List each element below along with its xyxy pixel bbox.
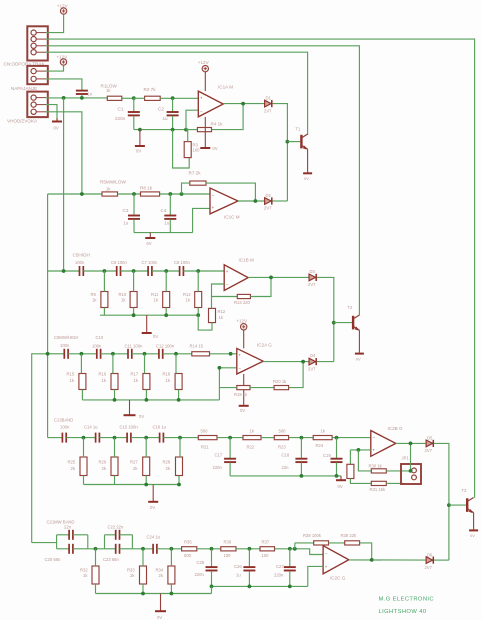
wire R7 right to output xyxy=(206,183,255,201)
wire merge bar 1 xyxy=(87,535,89,549)
svg-text:1u: 1u xyxy=(163,116,169,121)
label R19 1k xyxy=(234,392,248,397)
junction output IC1A xyxy=(241,102,245,106)
wire rail riser to minus node IC2A xyxy=(218,368,220,400)
resistor R19 xyxy=(237,386,250,390)
diode D6 xyxy=(426,557,433,564)
label D2 xyxy=(266,193,272,198)
label R23 xyxy=(278,444,286,449)
svg-text:R27: R27 xyxy=(130,460,138,465)
capacitor C3 xyxy=(128,216,140,219)
label C12 100n xyxy=(156,343,175,348)
label 0V (stage2) xyxy=(147,241,152,246)
label C5HIGH xyxy=(73,253,90,258)
label +12V (P2) xyxy=(57,54,69,59)
wire top branch to C21 xyxy=(57,534,70,536)
wire R37 to IC2C minus jog xyxy=(275,549,324,555)
resistor R1 xyxy=(107,96,122,100)
junction bus A end xyxy=(62,269,66,273)
wire R12 gain bottom to rail xyxy=(198,315,212,330)
wire R13 to output xyxy=(250,277,271,296)
label R5 value 1k xyxy=(106,187,111,192)
resistor R14 xyxy=(192,352,210,356)
resistor R33 xyxy=(140,566,147,584)
svg-text:220n: 220n xyxy=(115,116,126,121)
wire R38 to R39 xyxy=(329,542,345,544)
svg-text:0V: 0V xyxy=(139,414,144,419)
junction minus node stage1 xyxy=(184,128,188,132)
svg-text:−: − xyxy=(372,435,375,440)
capacitor C12 (series) xyxy=(159,349,163,359)
label C6 100n xyxy=(111,260,128,265)
svg-text:D3: D3 xyxy=(310,269,316,274)
junction C17 node xyxy=(228,436,232,440)
capacitor C14 (series) xyxy=(96,433,100,443)
label R37 xyxy=(262,540,270,545)
svg-text:R8 1k: R8 1k xyxy=(140,185,153,190)
label C27 value 220n xyxy=(274,572,284,577)
svg-text:R22: R22 xyxy=(247,444,255,449)
resistor R28 xyxy=(176,457,183,476)
wire stage4 input row xyxy=(48,353,64,355)
resistor R9 xyxy=(101,292,108,308)
label R22 value 1k xyxy=(250,428,255,433)
wire stage5 cap ground rail xyxy=(230,475,341,477)
ground symbol stage6 xyxy=(155,594,166,612)
label C9MW/HIGH xyxy=(54,335,78,340)
wire R26 stems xyxy=(114,438,116,485)
junction R12 ladder node xyxy=(196,269,200,273)
capacitor C6 (series) xyxy=(117,266,121,276)
label R10 xyxy=(119,292,127,297)
ground symbol under CN3 xyxy=(52,118,62,122)
ground symbol IC2A xyxy=(239,405,249,407)
resistor R8 xyxy=(141,192,160,196)
transistor T1 xyxy=(301,134,307,150)
junction T1 base node xyxy=(286,140,290,144)
supply +12V symbol P1 (top) xyxy=(60,8,66,14)
label C10 value 100n xyxy=(92,343,102,348)
wire stage3 input row xyxy=(48,270,80,272)
svg-text:C25: C25 xyxy=(197,560,205,565)
label C21MW BAND xyxy=(47,519,75,524)
capacitor C8 (series) xyxy=(180,266,184,276)
svg-text:C4: C4 xyxy=(161,208,167,213)
junction output IC2C xyxy=(370,558,374,562)
junction stage2 input xyxy=(80,192,84,196)
svg-text:1u: 1u xyxy=(236,572,241,577)
wire op-amp minus to node xyxy=(186,110,198,129)
svg-text:R36: R36 xyxy=(224,540,232,545)
svg-text:1u: 1u xyxy=(124,221,129,226)
junction R15 node xyxy=(80,352,84,356)
svg-text:R18: R18 xyxy=(163,372,171,377)
wire CN3 pin3 input bus to stage2 row xyxy=(46,112,82,194)
label R3 value 100 xyxy=(193,148,201,153)
svg-text:R12: R12 xyxy=(218,309,226,314)
svg-text:T3: T3 xyxy=(462,488,468,493)
wire C18 stem upper xyxy=(300,438,302,459)
ground symbol stage4 xyxy=(124,400,136,415)
wire R7 left to minus node xyxy=(182,183,190,194)
svg-text:220n: 220n xyxy=(274,572,284,577)
svg-text:T2: T2 xyxy=(348,305,354,310)
jumper JP1 xyxy=(401,464,421,484)
label R24 xyxy=(316,443,324,448)
label R27 xyxy=(130,460,138,465)
junction plus node IC2A xyxy=(229,352,233,356)
wire IC1B minus to feedback node xyxy=(212,284,225,297)
wire stage6 cap ground rail xyxy=(212,585,308,587)
wire R21 to C17 node xyxy=(217,437,243,439)
junction R11 node xyxy=(164,269,168,273)
wire C1 node to R2 xyxy=(134,97,145,99)
junction rail R12 xyxy=(196,313,200,317)
label R15 value 1k xyxy=(70,378,75,383)
wire C1 to ground rail xyxy=(133,116,135,130)
svg-text:0V: 0V xyxy=(157,615,162,620)
wire C26 to cap rail 6 xyxy=(248,571,250,587)
label C4 value 1u xyxy=(165,221,170,226)
label R2 7k xyxy=(144,87,157,92)
wire R35 to C25 node xyxy=(197,548,221,550)
svg-text:500: 500 xyxy=(184,553,192,558)
wire C24 to R35 xyxy=(157,548,182,550)
transistor T3 xyxy=(467,498,473,514)
svg-text:0V: 0V xyxy=(153,334,158,339)
svg-text:0V: 0V xyxy=(54,126,59,131)
resistor R7 xyxy=(190,181,206,185)
svg-text:R31 15k: R31 15k xyxy=(370,487,387,492)
wire stage5 input row xyxy=(48,437,62,439)
svg-text:R34: R34 xyxy=(156,568,164,573)
label +12V (top) xyxy=(57,4,69,9)
wire stage6 input xyxy=(32,542,57,544)
junction R9 node xyxy=(103,269,107,273)
junction cap rail C19 xyxy=(335,474,339,478)
label R4 1k xyxy=(211,121,224,126)
svg-text:R11: R11 xyxy=(151,292,159,297)
svg-text:+12V: +12V xyxy=(57,4,69,9)
label 0V (stage3) xyxy=(153,334,158,339)
svg-text:T1: T1 xyxy=(296,127,302,132)
label D2 value 2V7 xyxy=(264,206,272,211)
wire C2 lower stem xyxy=(172,116,174,130)
diode D3 xyxy=(309,274,316,281)
junction R34 node xyxy=(170,547,174,551)
wire C4 to rail xyxy=(169,219,171,232)
svg-text:JP1: JP1 xyxy=(402,455,410,460)
resistor R32 xyxy=(92,566,99,584)
svg-text:2V7: 2V7 xyxy=(425,565,433,570)
label C25 xyxy=(197,560,205,565)
label R12 gain value 1k xyxy=(219,315,224,320)
op-amp IC2C xyxy=(323,546,349,574)
supply +12V symbol P3 (IC1A) xyxy=(202,65,208,71)
wire C17 to cap rail xyxy=(229,463,231,476)
svg-text:−: − xyxy=(325,550,328,555)
svg-text:+: + xyxy=(325,565,328,570)
connector CN2 NAPAJANJE (2-pin) xyxy=(27,66,48,84)
wire splitter 2 xyxy=(104,535,106,549)
label R21 value 500 xyxy=(201,428,209,433)
label R34 value 2k xyxy=(159,573,164,578)
label T2 xyxy=(348,305,354,310)
label C2 xyxy=(158,106,164,111)
wire CN2 pin2 to capacitor C0 xyxy=(46,79,82,90)
label 0V (T2) xyxy=(356,356,361,361)
resistor R29 xyxy=(347,464,354,478)
label R33 value 2k xyxy=(130,573,135,578)
wire C20 to merge 1 xyxy=(73,548,88,550)
svg-text:C26: C26 xyxy=(234,564,242,569)
svg-text:C11 100n: C11 100n xyxy=(125,343,144,348)
resistor R20 xyxy=(274,386,289,390)
op-amp IC1A xyxy=(198,91,223,117)
wire splitter 1 xyxy=(56,535,58,549)
svg-text:+12V: +12V xyxy=(57,54,69,59)
wire C21 to merge 1 xyxy=(73,534,88,536)
label R16 value 1k xyxy=(102,378,107,383)
junction output IC1B xyxy=(269,276,273,280)
wire C19 stem upper xyxy=(336,438,338,459)
wire stage6 ladder ground rail xyxy=(96,593,212,595)
wire IC2C plus to cap rail xyxy=(308,566,323,586)
label C27 xyxy=(276,564,284,569)
label C22 22n xyxy=(108,524,125,529)
label C4 xyxy=(161,208,167,213)
wire top branch to C22 xyxy=(105,534,116,536)
capacitor C15 (series) xyxy=(127,433,131,443)
svg-text:C10: C10 xyxy=(96,335,104,340)
svg-text:100n: 100n xyxy=(60,425,70,430)
junction R33 node xyxy=(141,547,145,551)
ground symbol stage5 cap rail xyxy=(336,476,346,480)
wire rail riser stage6 xyxy=(211,586,213,593)
junction C3 node xyxy=(132,192,136,196)
wire stage2 input row xyxy=(48,193,102,195)
svg-text:IC1A M: IC1A M xyxy=(218,84,233,89)
label 0V (stage5 cap rail) xyxy=(338,484,343,489)
label 0V (stage6) xyxy=(157,615,162,620)
label R34 xyxy=(156,568,164,573)
diode D5 xyxy=(426,440,433,447)
wire R15 stems xyxy=(81,354,82,400)
resistor R21 xyxy=(198,436,217,440)
wire R30 to jumper pin1 xyxy=(386,470,410,472)
wire D4 to T2 vertical xyxy=(317,361,334,363)
connector CN1 (4-pin terminal block) xyxy=(27,26,48,60)
label C3 value 1u xyxy=(124,221,129,226)
svg-text:100n: 100n xyxy=(92,343,102,348)
svg-text:R5MW/LOW: R5MW/LOW xyxy=(100,180,126,185)
svg-text:+: + xyxy=(212,205,215,210)
svg-text:D2: D2 xyxy=(266,193,272,198)
capacitor C5 (series) xyxy=(80,266,84,276)
svg-text:R20 1k: R20 1k xyxy=(273,379,287,384)
resistor R12 gain xyxy=(209,308,216,322)
wire CN1 pin1 to +12V xyxy=(46,14,64,32)
junction R25 node xyxy=(82,436,86,440)
svg-text:C6 100n: C6 100n xyxy=(111,260,128,265)
svg-text:C27: C27 xyxy=(276,564,284,569)
junction output IC1C xyxy=(254,199,258,203)
label C26 xyxy=(234,564,242,569)
junction cap rail6 C26 xyxy=(248,585,252,589)
junction C2 node xyxy=(171,96,175,100)
resistor R13 xyxy=(237,294,250,298)
svg-text:C3: C3 xyxy=(123,208,129,213)
wire T3 base xyxy=(449,504,466,506)
svg-text:R38 100k: R38 100k xyxy=(303,533,322,538)
wire C27 stem xyxy=(289,549,291,567)
op-amp IC1C xyxy=(210,188,238,214)
label C18 value 22n xyxy=(282,465,290,470)
connector CN3 VHOD/ZVOKA (3-pin) xyxy=(27,92,48,118)
wire merge bar 2 xyxy=(131,535,133,549)
svg-text:R30 1k: R30 1k xyxy=(369,463,383,468)
label C16 1u xyxy=(153,425,167,430)
power stem T3 emitter to ground xyxy=(473,513,475,530)
svg-text:C19: C19 xyxy=(323,453,331,458)
svg-text:R25: R25 xyxy=(68,460,76,465)
label R30 1k xyxy=(369,463,383,468)
label R14 15 xyxy=(190,343,204,348)
junction rail R18 s4 xyxy=(177,398,181,402)
resistor R38 xyxy=(314,541,329,545)
power stem IC1A 0V xyxy=(204,117,206,147)
wire C27 to cap rail 6 xyxy=(289,571,291,587)
wire feedback stage6 up xyxy=(294,543,296,549)
wire C13 to R25 node xyxy=(66,437,95,439)
label C3 xyxy=(123,208,129,213)
wire R11 stems xyxy=(165,271,167,315)
wire C14 to R26 node xyxy=(99,437,127,439)
svg-text:R13 220: R13 220 xyxy=(234,300,251,305)
junction cap rail C18 xyxy=(300,474,304,478)
svg-text:C20 68n: C20 68n xyxy=(45,557,62,562)
resistor R27 xyxy=(143,457,150,476)
svg-text:R26: R26 xyxy=(99,460,107,465)
wire R9 stems xyxy=(103,271,105,315)
svg-text:C7 100n: C7 100n xyxy=(142,260,159,265)
junction stage4 input xyxy=(46,352,50,356)
svg-text:2V7: 2V7 xyxy=(264,206,272,211)
diode D4 xyxy=(309,358,316,365)
svg-text:−: − xyxy=(238,365,241,370)
label R5MW/LOW xyxy=(100,180,126,185)
wire IC1C output row xyxy=(238,200,264,202)
svg-text:R15: R15 xyxy=(67,372,75,377)
svg-text:VHOD/ZVOKA: VHOD/ZVOKA xyxy=(7,119,38,124)
resistor R12 ladder xyxy=(195,292,202,308)
wire CN3 pin2 to ground xyxy=(46,105,57,121)
wire IC2B output to jumper pin1 xyxy=(410,443,412,471)
svg-text:R16: R16 xyxy=(99,372,107,377)
svg-text:C16 1u: C16 1u xyxy=(153,425,167,430)
svg-text:D5: D5 xyxy=(427,435,433,440)
label R32 xyxy=(80,568,88,573)
resistor R10 xyxy=(130,292,137,308)
capacitor C21 (series) xyxy=(69,530,73,540)
label R28 xyxy=(163,460,171,465)
label C1 value 220n xyxy=(115,116,126,121)
label C21 value 22n xyxy=(64,524,72,529)
wire C10 to R16 node xyxy=(101,353,128,355)
svg-text:100: 100 xyxy=(224,553,232,558)
resistor R11 xyxy=(163,292,170,308)
svg-text:C23 68n: C23 68n xyxy=(103,557,120,562)
label C1 xyxy=(118,106,124,111)
label IC2A G xyxy=(257,342,272,347)
wire C6 to R10 node xyxy=(121,270,149,272)
wire C25 stem xyxy=(211,549,213,567)
svg-text:C1: C1 xyxy=(118,106,124,111)
label R12 gain xyxy=(218,309,226,314)
svg-text:R2 7k: R2 7k xyxy=(144,87,157,92)
wire C23 to merge 2 xyxy=(120,548,133,550)
label C18 xyxy=(282,453,290,458)
label C7 100n xyxy=(142,260,159,265)
resistor R36 xyxy=(221,547,236,551)
capacitor C22 (series) xyxy=(116,530,120,540)
label D3 value 2V7 xyxy=(308,282,316,287)
wire CN2 pin1 to +12V xyxy=(46,65,64,71)
label NAPAJANJE xyxy=(11,86,37,91)
wire R32 stems xyxy=(95,549,97,594)
wire R1 to C1 node xyxy=(122,97,134,99)
svg-text:0V: 0V xyxy=(136,149,141,154)
wire R4 to output xyxy=(212,104,244,130)
wire R16 stems xyxy=(113,354,115,400)
label R21 xyxy=(201,444,209,449)
svg-text:R23: R23 xyxy=(278,444,286,449)
capacitor C0 (supply decoupling) xyxy=(76,91,88,94)
capacitor C11 (series) xyxy=(128,349,132,359)
junction R28 node xyxy=(178,436,182,440)
wire IC2B output row xyxy=(396,442,426,444)
ground bar T3 xyxy=(469,529,478,531)
capacitor C24 (series) xyxy=(153,544,157,554)
label C23 68n xyxy=(103,557,120,562)
svg-text:C15 100n: C15 100n xyxy=(120,425,139,430)
capacitor C20 (series) xyxy=(69,544,73,554)
wire T1 base xyxy=(287,141,300,143)
label R15 xyxy=(67,372,75,377)
capacitor C4 xyxy=(164,216,176,219)
svg-text:IC1B M: IC1B M xyxy=(239,257,254,262)
svg-text:2V7: 2V7 xyxy=(264,108,272,113)
label R9 value 1k xyxy=(92,297,97,302)
label T3 xyxy=(462,488,468,493)
capacitor C9 (series) xyxy=(64,349,68,359)
label C17 xyxy=(215,453,223,458)
label +12V (P4) xyxy=(236,318,248,323)
resistor R25 xyxy=(80,457,87,476)
label C25 value 220n xyxy=(195,572,205,577)
wire R12 gain top stem xyxy=(211,297,213,309)
wire plus to R29 xyxy=(349,450,351,464)
junction rail R16 s4 xyxy=(113,398,117,402)
svg-text:C9MW/HIGH: C9MW/HIGH xyxy=(54,335,78,340)
wire feedback to R38 xyxy=(295,542,314,544)
label D1 xyxy=(266,95,272,100)
label R38 100k xyxy=(303,533,322,538)
svg-text:R10: R10 xyxy=(119,292,127,297)
capacitor C23 (series) xyxy=(116,544,120,554)
wire rail pin2 to T3 collector (right edge) xyxy=(46,39,475,498)
label IC2C G xyxy=(330,576,346,581)
